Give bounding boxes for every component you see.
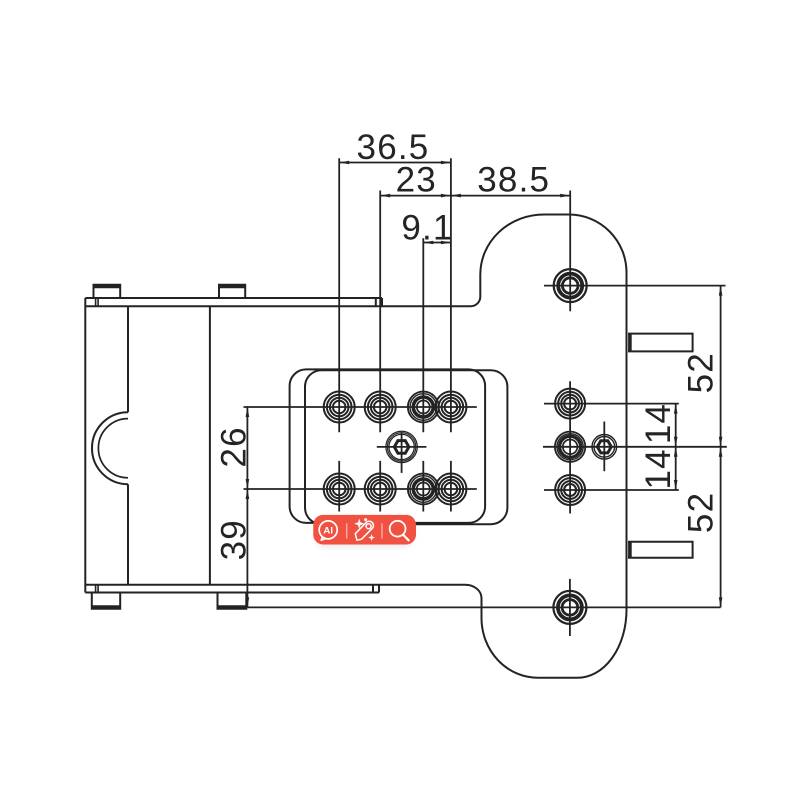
dim line 9.1: [423, 242, 451, 244]
hole R2C2: [365, 474, 396, 505]
dim line 26-39 vertical: [246, 407, 248, 607]
bottom mounting hole: [553, 591, 586, 624]
center screw hole: [386, 431, 417, 462]
bottom strip bottom line: [85, 585, 379, 593]
badge icon AI bubble: [319, 521, 337, 540]
bottom tab 2: [218, 593, 247, 609]
pocket rounded rect B: [305, 370, 507, 524]
hole R1C2: [365, 392, 396, 423]
top tab 2: [219, 285, 245, 298]
right cluster leader middle: [543, 446, 727, 448]
bottom-left notch: [96, 585, 99, 593]
svg-text:14: 14: [639, 403, 678, 444]
right side tab lower: [628, 542, 693, 558]
right cluster centerline vertical: [569, 381, 571, 513]
badge divider 1: [346, 523, 348, 538]
top mounting hole: [554, 269, 587, 302]
hole R1C3 bold: [408, 392, 439, 423]
svg-text:38.5: 38.5: [477, 160, 550, 199]
part outline: body top line, flange top blob, right edge, bottom blob, bottom line: [85, 215, 626, 678]
hole R2C1: [324, 474, 355, 505]
top tab 1: [94, 285, 121, 298]
right cluster leader top: [544, 403, 679, 405]
semicircular notch inner arc: [98, 419, 128, 478]
top-left notch: [96, 298, 99, 306]
dim line 23 and 38.5: [380, 195, 570, 197]
svg-text:52: 52: [681, 352, 720, 393]
svg-text:9.1: 9.1: [401, 209, 453, 248]
hole R2C3 bold: [408, 474, 439, 505]
svg-text:52: 52: [681, 492, 720, 533]
dim line 52-52 vertical: [720, 286, 722, 608]
semicircular notch outer arc: [92, 412, 128, 484]
badge divider 2: [381, 523, 383, 538]
svg-text:39: 39: [214, 519, 253, 560]
dim line 36.5: [339, 162, 451, 164]
badge icon magic pencil: [355, 521, 373, 540]
bottom tab 1: [92, 593, 120, 609]
hole R1C1: [324, 392, 355, 423]
extension 38.5 right / top hole vertical: [569, 191, 571, 312]
top mounting hole leader: [544, 285, 726, 287]
badge shadow: [316, 522, 413, 548]
cluster hole B bold: [555, 432, 585, 462]
cluster hole A: [555, 389, 585, 419]
svg-text:23: 23: [396, 160, 437, 199]
svg-text:26: 26: [214, 426, 253, 467]
column 4 extension line: [450, 158, 452, 511]
row 1 centerline: [244, 406, 477, 408]
inner vertical line A with notch gap: [127, 306, 129, 584]
small hex hole vertical centerline: [603, 422, 605, 472]
bottom leader line shared 39 dim: [247, 606, 720, 608]
small hex hole: [592, 435, 617, 460]
column 3 extension line: [422, 238, 424, 511]
right cluster leader bottom: [544, 489, 679, 491]
dimension texts: [214, 128, 720, 560]
left body left edge: [84, 298, 86, 593]
inner vertical line B: [209, 306, 211, 584]
right side tab upper: [628, 334, 693, 352]
column 1 extension line: [338, 158, 340, 511]
svg-text:14: 14: [639, 448, 678, 489]
top strip top line: [85, 298, 382, 306]
hole R2C4: [435, 474, 466, 505]
badge icon magnifier: [390, 521, 409, 541]
red AI badge: [313, 515, 416, 545]
center screw crosshair: [377, 432, 427, 473]
bottom mounting hole vertical centerline: [569, 579, 571, 636]
row 2 centerline: [244, 488, 477, 490]
pocket rounded rect A: [290, 369, 486, 523]
dim line 14-14 vertical: [675, 404, 677, 490]
column 2 extension line: [379, 191, 381, 512]
svg-text:AI: AI: [323, 525, 333, 536]
cluster hole C: [555, 475, 585, 505]
hole R1C4: [435, 392, 466, 423]
arrows: [246, 161, 723, 608]
